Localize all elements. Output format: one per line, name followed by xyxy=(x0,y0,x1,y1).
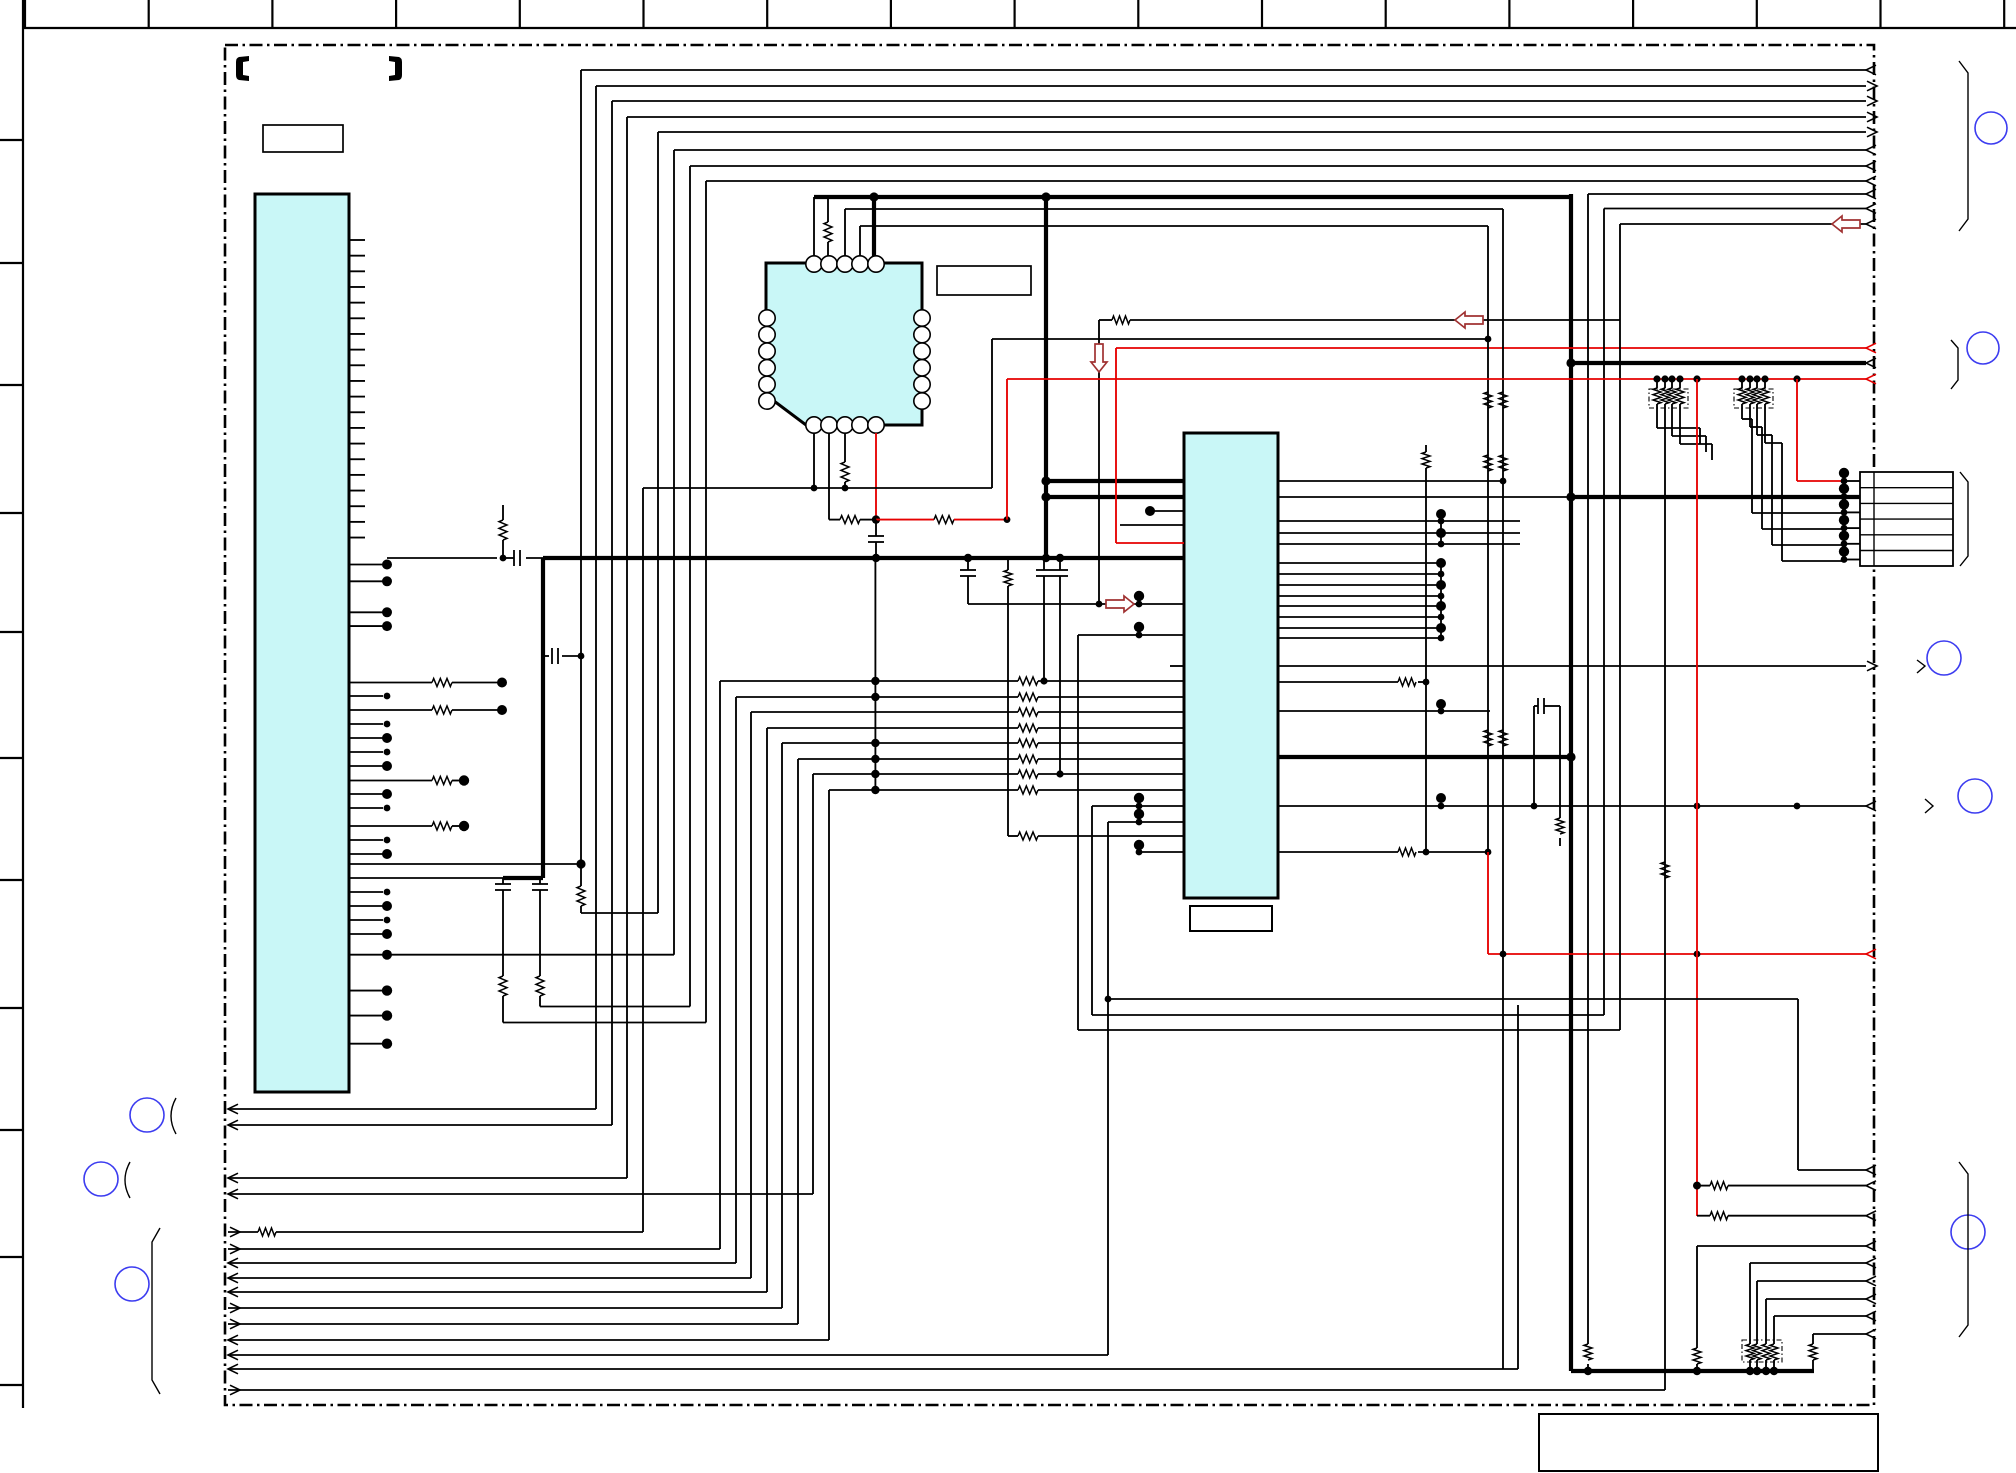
capacitor x543-x581 xyxy=(543,655,549,657)
red wire R1 riser xyxy=(1006,379,1008,520)
bracket left y1115 xyxy=(171,1098,176,1134)
wire y604 to IC3 xyxy=(968,603,1184,605)
wire bus row horizontal xyxy=(581,69,1866,71)
sheet border top line xyxy=(23,27,2016,29)
vertical x1588 row9 drop xyxy=(1587,194,1589,1344)
IC1 pin wire long xyxy=(349,863,581,865)
red wire R2 riser xyxy=(1115,348,1117,543)
bold wire B5 vertical x1571 xyxy=(1569,194,1573,1371)
resistor pack P2 dashdot box xyxy=(1734,389,1773,408)
bold wire B2 xyxy=(526,557,543,559)
bracket left tall xyxy=(152,1228,160,1394)
riser x798 xyxy=(797,759,799,1324)
ref circle left y1284 xyxy=(115,1267,149,1301)
bold wire into IC3 y481 xyxy=(1046,479,1184,483)
riser x782 xyxy=(781,743,783,1308)
bold wire y497 to connector xyxy=(1571,495,1860,499)
IC1 pin wire xyxy=(349,853,383,855)
vertical dot bus x1441 xyxy=(1440,514,1442,544)
wire bus row horizontal xyxy=(706,180,1866,182)
wire arrow y1246 xyxy=(1697,1245,1866,1247)
wire pin1 up xyxy=(813,197,815,256)
wire riser x1099 xyxy=(1098,320,1100,604)
IC1 right side pins with junction dots xyxy=(349,564,383,566)
vertical x1604 row10 drop xyxy=(1603,209,1605,1016)
IC3 row y822 left xyxy=(1108,821,1184,823)
wire y1006 to riser x690 xyxy=(540,1006,690,1008)
wire QFP pin3 to x1503 corner xyxy=(845,208,1503,210)
bracket right y348 xyxy=(1951,340,1958,389)
IC3 right y852 to red riser xyxy=(1278,851,1398,853)
bundle row dots at x875 xyxy=(871,677,879,685)
red vertical x1488 xyxy=(1487,852,1489,954)
wire riser x674 xyxy=(673,150,675,955)
wire bus row horizontal xyxy=(690,165,1866,167)
bracket left y1179 xyxy=(125,1162,130,1198)
resistor pack P2 xyxy=(1741,379,1743,388)
riser x1078 xyxy=(1077,635,1079,1030)
wire riser x643 xyxy=(642,488,644,1232)
IC1 pin wire xyxy=(349,737,383,739)
IC1 pin wire xyxy=(349,751,383,753)
IC2 label box xyxy=(937,266,1031,295)
bold wire B4 to border xyxy=(1571,361,1866,365)
wire y488 horizontal xyxy=(643,487,992,489)
wire y339 xyxy=(992,338,1488,340)
IC3 pin stub y511 xyxy=(1145,506,1155,516)
IC1 lower pin wire xyxy=(349,1043,383,1045)
capacitor under B2 x1044 xyxy=(1043,558,1045,570)
IC3 row y806 left xyxy=(1092,805,1184,807)
capacitor on B2 xyxy=(513,550,515,566)
pack P1 tails xyxy=(1656,404,1658,428)
bold stub to x503 xyxy=(503,876,543,880)
wire bus row horizontal xyxy=(612,100,1866,102)
resistor under B2 x1008 xyxy=(1007,558,1009,570)
IC2 bottom pads xyxy=(806,417,822,433)
IC2 right pads xyxy=(914,310,930,326)
red vertical x1697 xyxy=(1696,379,1698,1216)
resistor x503 lower xyxy=(499,976,507,996)
riser x1108 xyxy=(1107,822,1109,1355)
wire row9 thin to border xyxy=(1588,193,1866,195)
IC3 right y682 xyxy=(1278,681,1398,683)
IC1 pin wire with resistor R xyxy=(349,682,432,684)
wire bus row horizontal xyxy=(627,116,1866,118)
IC1 pin wire to bold node xyxy=(349,877,503,879)
resistor on pin2 riser xyxy=(827,197,829,222)
red arrow right on y604 xyxy=(1106,596,1134,612)
wire QFP pin4 to x1488 corner xyxy=(860,225,1488,227)
capacitor under red node xyxy=(875,520,877,536)
red wire R1 from QFP bpin5 xyxy=(875,433,877,520)
IC1 pin wire long to riser xyxy=(349,954,674,956)
bold wire into IC3 y497 xyxy=(1046,495,1184,499)
wire y999 xyxy=(1108,998,1798,1000)
ref circle right y658 xyxy=(1927,641,1961,675)
wires arrows y1263-1316 via pack P3 xyxy=(1750,1262,1866,1264)
wire x581 node chain xyxy=(578,653,585,660)
IC3 pin y628-635 row xyxy=(1134,622,1144,632)
left border arrow rows upper xyxy=(228,1108,596,1110)
capacitor under B2 x1060 xyxy=(1059,558,1061,570)
red wire R2 to border xyxy=(1116,347,1866,349)
ref circle left y1115 xyxy=(130,1098,164,1132)
title box bottom right xyxy=(1539,1414,1878,1471)
ref circle right top xyxy=(1975,112,2007,144)
capacitor under x503 xyxy=(502,878,504,884)
wire arrow y1185 with resistor xyxy=(1697,1185,1710,1187)
riser x751 xyxy=(750,712,752,1278)
IC2 top pads xyxy=(806,256,822,272)
arrow rows right lower xyxy=(1866,343,1876,353)
IC3 right y711 xyxy=(1278,710,1490,712)
wire y1015 xyxy=(1092,1014,1604,1016)
sheet border top ticks xyxy=(24,0,26,28)
vertical x1488 chain xyxy=(1487,226,1489,852)
IC2 left pads xyxy=(759,310,775,326)
wire y1030 xyxy=(1078,1029,1620,1031)
IC1 pin wire xyxy=(349,807,383,809)
riser x813 xyxy=(812,774,814,1194)
bracket right bottom xyxy=(1959,1162,1968,1337)
arrow y666 xyxy=(1867,661,1877,671)
wire riser x581 xyxy=(580,70,582,656)
IC3 right y497 thin xyxy=(1278,496,1571,498)
red drop to connector xyxy=(1796,379,1798,481)
riser x767 xyxy=(766,728,768,1292)
wire QFP bpin1 down xyxy=(813,433,815,488)
riser x720 xyxy=(719,681,721,1249)
IC3 pin stub y525 xyxy=(1120,524,1184,526)
capacitor under B2 x968 xyxy=(967,558,969,570)
red wire R4 to border xyxy=(1488,953,1866,955)
riser x1798 xyxy=(1797,999,1799,1170)
vertical x1620 row11 drop xyxy=(1619,224,1621,1030)
riser x736 xyxy=(735,697,737,1263)
IC IC2 QFP body xyxy=(766,263,922,425)
IC3 label box xyxy=(1190,906,1272,931)
wire arrow y1216 with resistor xyxy=(1697,1215,1710,1217)
wire QFP bpin2 down-right xyxy=(828,433,830,520)
wire bus row horizontal xyxy=(658,131,1866,133)
bold IC3 y757 xyxy=(1278,755,1571,759)
IC3 pin y666 stub xyxy=(1170,665,1184,667)
vertical x1665 long xyxy=(1664,404,1666,1390)
red arrow on row11 xyxy=(1832,216,1860,232)
wire y320 with resistor xyxy=(1099,319,1112,321)
top right border arrowheads xyxy=(1866,65,1876,75)
vertical x1503 chain xyxy=(1502,209,1504,1369)
wire riser x690 xyxy=(689,166,691,1007)
wire row11 to border xyxy=(1620,223,1866,225)
wire arrow y1170 xyxy=(1798,1169,1866,1171)
IC1 lower pin wire xyxy=(349,1015,383,1017)
bold wire B6 bottom bus xyxy=(1571,1369,1814,1373)
bold riser to QFP pin5 xyxy=(872,197,876,256)
wire riser x596 xyxy=(595,86,597,1109)
IC1 pin wire xyxy=(349,723,383,725)
resistor pack P1 xyxy=(1656,379,1658,388)
IC1 pin wire xyxy=(349,839,383,841)
red arrow on y320 xyxy=(1455,312,1483,328)
IC3 bundle rows with resistors xyxy=(720,680,1018,682)
pack P2 to connector rows xyxy=(1741,404,1743,419)
IC1 pin wire xyxy=(349,765,383,767)
capacitor under x540 xyxy=(539,878,541,884)
riser x1092 xyxy=(1091,806,1093,1015)
IC3 right y666 to border arrow right xyxy=(1278,665,1866,667)
IC1 pin wire xyxy=(349,933,383,935)
wire from IC1 to cap xyxy=(387,557,497,559)
connector J1 bracket xyxy=(1960,472,1968,566)
wire riser x706 xyxy=(705,181,707,1023)
IC1 pin wire with resistor R xyxy=(349,780,432,782)
IC1 pin wire xyxy=(349,695,383,697)
vertical x1518 xyxy=(1517,1005,1519,1369)
red wire R2 into IC3 xyxy=(1116,542,1184,544)
bold riser x1046 xyxy=(1044,197,1048,558)
wire riser x658 xyxy=(657,132,659,913)
wire riser x992 xyxy=(991,339,993,488)
wire bus row horizontal xyxy=(596,85,1866,87)
resistor above B2 left xyxy=(502,540,504,558)
IC1 pin wire with resistor R xyxy=(349,709,432,711)
wire riser x627 xyxy=(626,117,628,1178)
connector J1 pin bus dots xyxy=(1843,473,1845,561)
IC3 right y481 xyxy=(1278,480,1503,482)
board outline dash-dot border xyxy=(225,45,1874,1405)
IC IC3 center IC body xyxy=(1184,433,1278,898)
IC3 row y836 xyxy=(1008,835,1018,837)
IC3 row y852 left stub xyxy=(1139,851,1184,853)
IC1 pin wire with resistor R xyxy=(349,825,432,827)
IC1 lower pin wire xyxy=(349,990,383,992)
tick right y666 xyxy=(1917,660,1925,673)
connector J1 pin stubs xyxy=(1844,480,1860,482)
arrow y806 xyxy=(1866,801,1876,811)
label box near title xyxy=(263,125,343,152)
ref circle right bottom xyxy=(1951,1215,1985,1249)
bracket right top xyxy=(1959,61,1968,231)
bold wire B1 top xyxy=(814,195,1571,199)
IC1 pin wire xyxy=(349,905,383,907)
ref circle right y348 xyxy=(1967,332,1999,364)
red wire R3 bus xyxy=(1007,378,1866,380)
IC IC1 left large IC body xyxy=(255,194,349,1092)
board title brackets xyxy=(236,56,249,81)
red arrow down xyxy=(1091,344,1107,372)
resistor pack P1 dashdot box xyxy=(1649,389,1688,408)
sheet border left ticks xyxy=(0,139,23,141)
IC1 pin wire xyxy=(349,793,383,795)
IC1 pin wire xyxy=(349,919,383,921)
bold riser x543 xyxy=(541,558,545,878)
IC3 right short rows y521-544 xyxy=(1278,520,1520,522)
resistor under QFP bpin3 xyxy=(844,433,846,462)
riser x1426 with resistor xyxy=(1425,445,1427,452)
sheet border left line xyxy=(22,0,24,1408)
red wire R1 right with resistor xyxy=(876,519,934,521)
arrow y954 red xyxy=(1866,949,1876,959)
ref circle left y1179 xyxy=(84,1162,118,1196)
bottom resistor pack P3 dashdot box xyxy=(1742,1340,1782,1362)
wire vertical x875 lower xyxy=(874,558,876,790)
wire row10 to border xyxy=(1604,208,1866,210)
IC1 right side stub pins xyxy=(349,239,365,241)
left border arrow rows lower xyxy=(228,1231,258,1233)
IC1 pin wire xyxy=(349,891,383,893)
wire riser x612 xyxy=(611,101,613,1125)
RC branch at x1534 xyxy=(1533,706,1535,806)
wire arrow y1334 xyxy=(1813,1333,1866,1335)
ref circle right y796 xyxy=(1958,779,1992,813)
wire y1022 to riser x706 xyxy=(503,1022,706,1024)
IC3 right rows y563-638 with dot column xyxy=(1278,562,1441,564)
tick right y806 xyxy=(1925,799,1933,813)
IC3 right y806 to border xyxy=(1278,805,1866,807)
connector J1 body xyxy=(1860,472,1953,566)
wire bus row horizontal xyxy=(674,149,1866,151)
resistor x540 lower xyxy=(536,976,544,996)
riser x829 xyxy=(828,790,830,1340)
